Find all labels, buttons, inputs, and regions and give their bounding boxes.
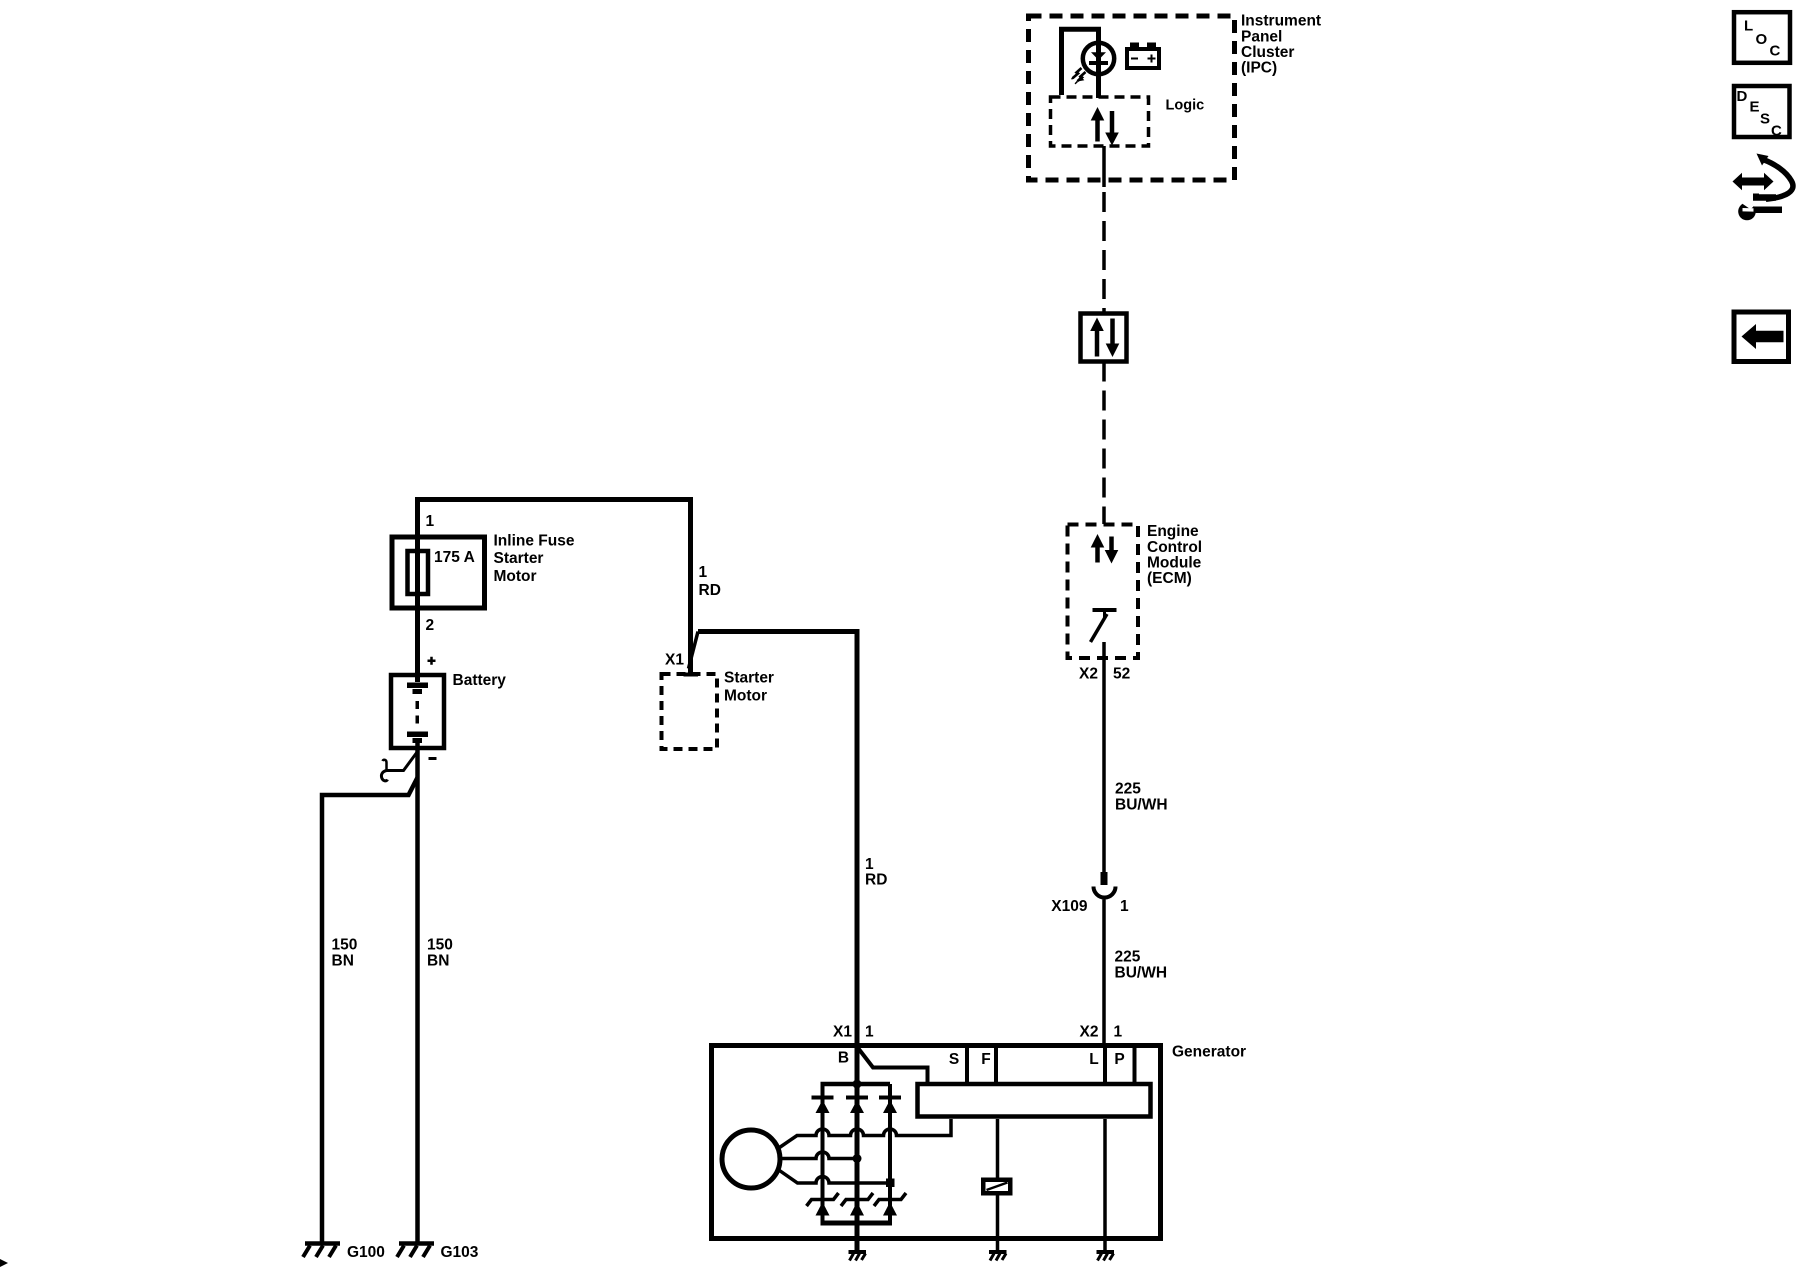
svg-text:B: B bbox=[838, 1050, 849, 1067]
zener diode D4 (bottom, column 1) bbox=[807, 1193, 839, 1216]
svg-text:1: 1 bbox=[865, 1024, 874, 1041]
label: wire 225 BU/WH (upper) bbox=[1115, 781, 1168, 814]
inline fuse holder box bbox=[392, 537, 485, 608]
wire: serial data dashed connector to ECM bbox=[1102, 362, 1106, 525]
battery plus sign bbox=[428, 657, 436, 665]
block: Starter Motor dashed outline bbox=[662, 674, 718, 749]
diode D1 (top, column 1) bbox=[812, 1098, 834, 1114]
svg-text:Battery: Battery bbox=[453, 672, 507, 689]
svg-text:G103: G103 bbox=[441, 1244, 479, 1261]
svg-text:Control: Control bbox=[1147, 539, 1202, 556]
battery clamp symbol bbox=[381, 752, 417, 781]
svg-text:BN: BN bbox=[427, 953, 449, 970]
ground G103 symbol bbox=[397, 1244, 434, 1258]
rectifier column 1 bbox=[821, 1084, 825, 1223]
wire: battery negative to G103 bbox=[415, 743, 420, 1243]
svg-text:X2: X2 bbox=[1080, 1024, 1099, 1041]
label: X109 pin 1 bbox=[1051, 898, 1129, 915]
label: wire 225 BU/WH (lower) bbox=[1115, 949, 1168, 982]
wire: 1 RD feed to generator B (with drop) bbox=[698, 632, 857, 1252]
battery minus sign bbox=[429, 757, 437, 760]
ground symbol under B column bbox=[849, 1252, 867, 1261]
rectifier bottom bus bbox=[821, 1221, 893, 1226]
svg-text:1: 1 bbox=[1120, 898, 1129, 915]
svg-text:Module: Module bbox=[1147, 555, 1202, 572]
svg-text:225: 225 bbox=[1115, 781, 1141, 798]
diode D3 (top, column 3) bbox=[879, 1098, 901, 1114]
svg-text:225: 225 bbox=[1115, 949, 1141, 966]
svg-text:S: S bbox=[1760, 111, 1770, 128]
svg-text:E: E bbox=[1750, 99, 1760, 116]
pin label X2 52 at ECM bbox=[1079, 666, 1130, 683]
svg-text:X1: X1 bbox=[833, 1024, 852, 1041]
battery cell plates bbox=[407, 683, 428, 744]
switch driver symbol inside ECM bbox=[1091, 610, 1117, 642]
rectifier top bus bbox=[821, 1082, 891, 1087]
svg-text:Starter: Starter bbox=[724, 670, 774, 687]
svg-text:C: C bbox=[1771, 122, 1782, 139]
svg-text:Instrument: Instrument bbox=[1241, 13, 1321, 30]
junction dot phase 3 bbox=[886, 1179, 895, 1188]
svg-text:(IPC): (IPC) bbox=[1241, 60, 1277, 77]
wire: 225 BU/WH from ECM pin 52 to X109 bbox=[1102, 642, 1106, 872]
wire: ground branch to G100 bbox=[322, 778, 418, 1244]
label: wire 150 BN (right) bbox=[427, 937, 453, 970]
zener diode D6 (bottom, column 3) bbox=[874, 1193, 906, 1216]
zener diode D5 (bottom, column 2) bbox=[841, 1193, 873, 1216]
ground symbol under L wire bbox=[1097, 1252, 1115, 1261]
fuse F1 175A element bbox=[408, 551, 429, 594]
svg-text:Starter: Starter bbox=[494, 550, 544, 567]
wire: F terminal drop bbox=[996, 1119, 1000, 1252]
ground symbol under F wire bbox=[989, 1252, 1007, 1261]
svg-text:Inline Fuse: Inline Fuse bbox=[494, 533, 575, 550]
svg-text:Logic: Logic bbox=[1166, 98, 1205, 114]
wire: lamp feed loop inside IPC bbox=[1062, 29, 1099, 98]
label: Engine Control Module (ECM) bbox=[1147, 523, 1202, 587]
wire: battery positive feed loop (fuse 1 to starter motor) bbox=[418, 500, 691, 683]
label: wire 1 RD (generator B) bbox=[865, 856, 887, 889]
block: Engine Control Module (ECM) dashed outline bbox=[1068, 525, 1139, 659]
block: Instrument Panel Cluster (IPC) dashed outline bbox=[1029, 16, 1235, 180]
rectifier column 3 bbox=[888, 1084, 892, 1223]
terminal divider S|F left bbox=[965, 1048, 969, 1083]
terminal divider F right bbox=[994, 1048, 998, 1083]
connector X109 bbox=[1094, 872, 1116, 898]
serial data arrows inside logic box bbox=[1091, 107, 1119, 146]
indicator lamp (charge telltale) L1 bbox=[1072, 43, 1115, 84]
svg-text:BN: BN bbox=[332, 953, 354, 970]
label: wire 1 RD (starter feed) bbox=[699, 564, 721, 599]
svg-text:Motor: Motor bbox=[724, 688, 767, 705]
terminal divider P right bbox=[1133, 1048, 1137, 1083]
svg-text:BU/WH: BU/WH bbox=[1115, 965, 1168, 982]
svg-text:D: D bbox=[1737, 88, 1748, 105]
svg-text:BU/WH: BU/WH bbox=[1115, 797, 1168, 814]
svg-text:P: P bbox=[1114, 1051, 1124, 1068]
wire: internal jog from B wire to regulator bbox=[858, 1048, 928, 1083]
label: wire 150 BN (left) bbox=[332, 937, 358, 970]
svg-text:1: 1 bbox=[865, 856, 874, 873]
junction dot B wire on top bus bbox=[853, 1080, 862, 1089]
svg-text:O: O bbox=[1756, 31, 1768, 48]
svg-text:Cluster: Cluster bbox=[1241, 44, 1294, 61]
stator winding circle bbox=[722, 1130, 780, 1188]
svg-text:S: S bbox=[949, 1051, 959, 1068]
svg-text:C: C bbox=[1770, 43, 1781, 60]
ground G100 symbol bbox=[303, 1244, 340, 1258]
block: Generator outline bbox=[712, 1046, 1161, 1239]
icon: LOC button bbox=[1734, 12, 1790, 63]
logic box inside IPC bbox=[1051, 97, 1149, 146]
phase wire 1 (to regulator) bbox=[780, 1119, 952, 1148]
svg-text:Generator: Generator bbox=[1172, 1044, 1246, 1061]
svg-text:150: 150 bbox=[427, 937, 453, 954]
wire: IPC logic output stub bbox=[1102, 146, 1106, 187]
junction dot phase 2 bbox=[853, 1154, 862, 1163]
pin tick X1 at starter motor bbox=[684, 673, 699, 677]
diode D2 (top, column 2) bbox=[846, 1098, 868, 1114]
svg-text:RD: RD bbox=[865, 872, 887, 889]
terminal divider L|P (L wire inside) bbox=[1103, 1048, 1107, 1083]
svg-text:X109: X109 bbox=[1051, 898, 1088, 915]
label: Instrument Panel Cluster (IPC) bbox=[1241, 13, 1321, 77]
icon: back arrow button bbox=[1734, 312, 1789, 362]
svg-text:G100: G100 bbox=[347, 1244, 385, 1261]
battery symbol inside IPC bbox=[1127, 43, 1159, 69]
svg-text:(ECM): (ECM) bbox=[1147, 570, 1192, 587]
icon: harness routing / tools bbox=[1733, 154, 1793, 221]
label: Inline Fuse Starter Motor bbox=[494, 533, 575, 586]
pin label X1 1 at generator B bbox=[833, 1024, 874, 1041]
page corner mark bbox=[0, 1259, 8, 1267]
phase wire 2 (to column 2) bbox=[780, 1152, 857, 1159]
svg-text:RD: RD bbox=[699, 582, 721, 599]
label: Starter Motor bbox=[724, 670, 774, 705]
svg-text:X2: X2 bbox=[1079, 666, 1098, 683]
svg-text:52: 52 bbox=[1113, 666, 1130, 683]
wire: L terminal drop bbox=[1103, 1119, 1107, 1252]
voltage regulator box bbox=[918, 1084, 1151, 1117]
wire: 225 BU/WH from X109 to generator L bbox=[1102, 900, 1106, 1047]
svg-text:L: L bbox=[1744, 18, 1753, 35]
in-line harness connector symbol (serial data) bbox=[1081, 314, 1127, 362]
svg-text:L: L bbox=[1089, 1051, 1098, 1068]
svg-text:150: 150 bbox=[332, 937, 358, 954]
field diode component on F wire bbox=[981, 1178, 1013, 1196]
svg-text:Panel: Panel bbox=[1241, 28, 1282, 45]
svg-text:1: 1 bbox=[699, 564, 708, 581]
svg-text:Motor: Motor bbox=[494, 568, 537, 585]
wire: junction diagonal at starter motor bbox=[689, 632, 699, 669]
svg-text:2: 2 bbox=[426, 617, 435, 634]
svg-text:X1: X1 bbox=[665, 652, 684, 669]
battery G1 box bbox=[391, 675, 444, 748]
svg-text:Engine: Engine bbox=[1147, 523, 1199, 540]
svg-text:1: 1 bbox=[426, 513, 435, 530]
pin label X2 1 at generator bbox=[1080, 1024, 1123, 1041]
serial data arrows inside ECM bbox=[1091, 534, 1119, 564]
icon: DESC button bbox=[1734, 86, 1790, 139]
svg-text:1: 1 bbox=[1114, 1024, 1123, 1041]
wire: serial data dashed IPC to connector symbol bbox=[1102, 192, 1106, 313]
svg-text:F: F bbox=[981, 1051, 990, 1068]
svg-text:175 A: 175 A bbox=[434, 549, 475, 566]
phase wire 3 (to column 3) bbox=[780, 1171, 891, 1184]
